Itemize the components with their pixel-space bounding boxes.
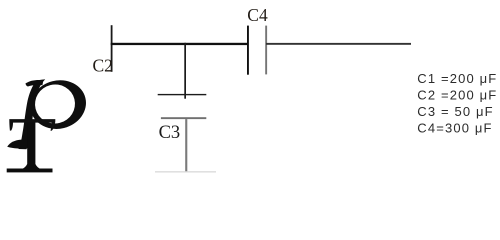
capacitor C4 left plate — [247, 26, 249, 75]
letter T crossbar with drooping serifs — [9, 119, 55, 131]
faint edge line below C3 — [155, 171, 216, 172]
svg-text:C1 =200 μF: C1 =200 μF — [417, 71, 497, 86]
svg-text:C4=300 μF: C4=300 μF — [417, 121, 492, 136]
label C3 — [159, 123, 181, 143]
svg-text:C4: C4 — [247, 5, 268, 25]
letter p (large italic glyph, bottom-left) — [7, 74, 91, 149]
wire: right horizontal from C4 — [266, 43, 411, 45]
svg-text:C3 = 50 μF: C3 = 50 μF — [417, 104, 493, 119]
letter T bottom serif bar — [7, 169, 53, 173]
capacitor C2 left plate — [111, 25, 113, 72]
capacitor C3 bottom plate — [161, 117, 206, 119]
capacitor C4 right plate — [265, 26, 267, 75]
value label C3 — [417, 104, 493, 119]
svg-text:C3: C3 — [159, 123, 181, 143]
value label C4 — [417, 121, 492, 136]
letter T stem — [22, 123, 40, 170]
wire: stub below C3 — [185, 119, 187, 172]
svg-text:C2 =200 μF: C2 =200 μF — [417, 88, 497, 103]
capacitor C3 top plate — [158, 94, 207, 95]
label C4 — [247, 5, 268, 25]
value label C1 — [417, 71, 497, 86]
label C2 — [93, 56, 113, 76]
wire: vertical branch to C3 — [184, 43, 186, 99]
svg-text:C2: C2 — [93, 56, 113, 76]
value label C2 — [417, 88, 497, 103]
wire: main top horizontal — [111, 43, 249, 45]
